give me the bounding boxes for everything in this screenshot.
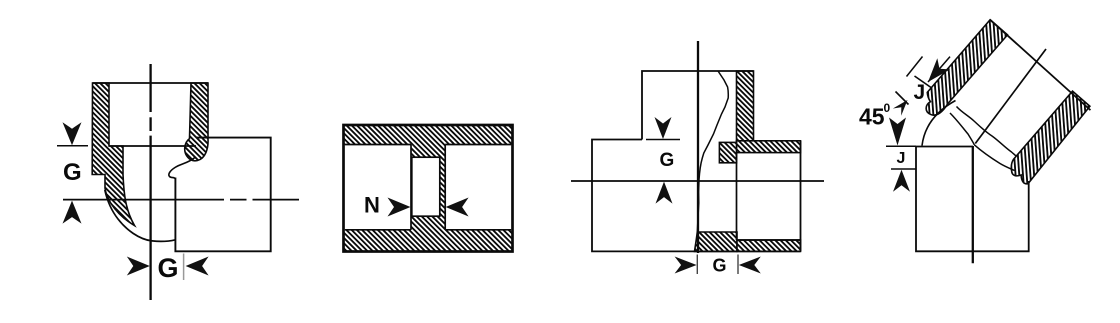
svg-text:G: G [713,256,727,276]
svg-text:0: 0 [884,101,891,115]
svg-text:J: J [897,150,906,167]
svg-text:G: G [660,150,675,171]
svg-text:J: J [914,81,926,104]
svg-text:G: G [63,159,82,186]
svg-text:45: 45 [859,104,885,130]
svg-text:G: G [158,253,179,283]
svg-text:N: N [364,193,380,218]
